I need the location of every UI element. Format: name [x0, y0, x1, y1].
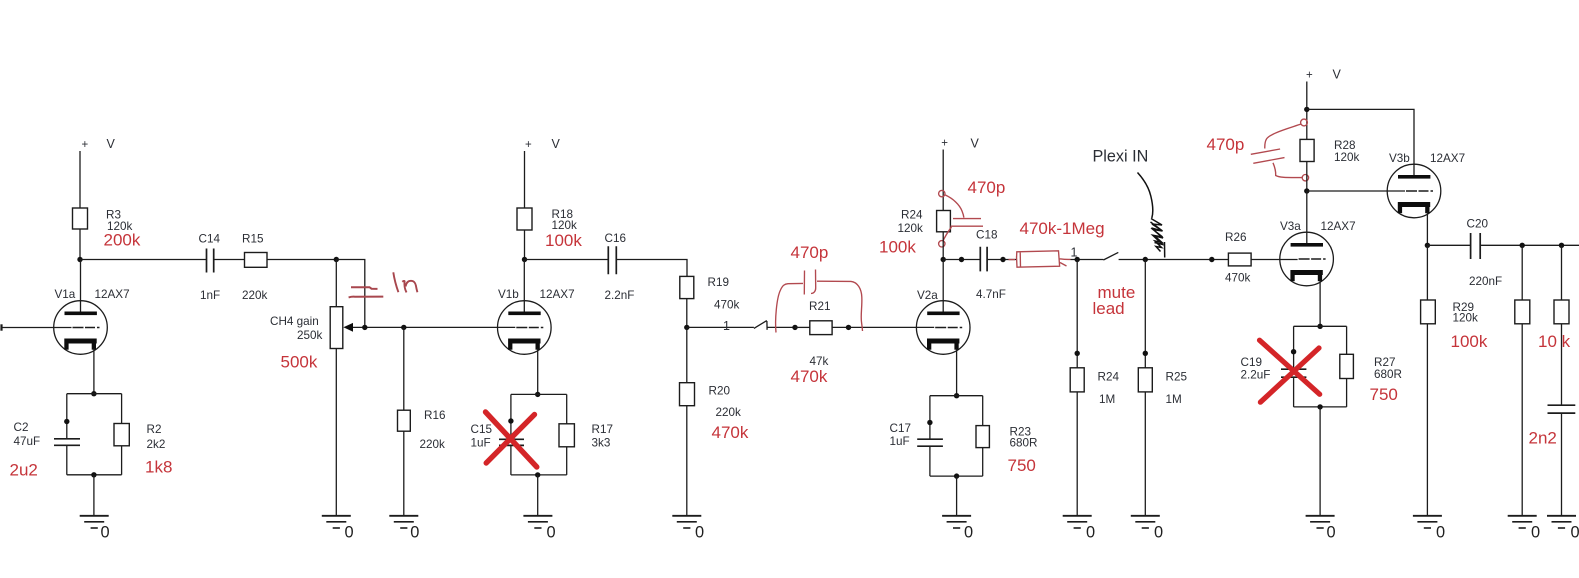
wire to ground (V1b cathode)	[537, 475, 539, 516]
resistor R2	[114, 424, 129, 446]
svg-text:200k: 200k	[104, 231, 141, 250]
svg-text:0: 0	[1531, 524, 1540, 542]
node right branch	[1559, 243, 1564, 248]
svg-text:220k: 220k	[716, 406, 742, 419]
wire R20 to ground	[686, 406, 688, 516]
wire right branch to R2	[121, 394, 123, 424]
svg-text:470k: 470k	[712, 423, 749, 442]
wire C20 to right edge	[1480, 244, 1579, 246]
wire R16 branch down	[403, 327, 405, 410]
wire V3b cathode down	[1426, 212, 1428, 245]
svg-text:2.2uF: 2.2uF	[1241, 368, 1271, 381]
wire V1a cathode down	[93, 349, 95, 394]
node cathode rail (V1b)	[535, 392, 540, 397]
wire left branch to C15	[510, 394, 512, 439]
wire R21 to node	[832, 326, 848, 328]
wire right branch down	[1561, 245, 1563, 300]
wire node to V3b grid	[1307, 190, 1405, 192]
wire left branch down to C2	[66, 394, 68, 439]
svg-text:47uF: 47uF	[14, 435, 41, 448]
potentiometer CH4 gain 250k	[330, 307, 343, 349]
svg-text:0: 0	[964, 524, 973, 542]
resistor R15	[245, 253, 268, 268]
wire C2 to bottom rail	[66, 445, 68, 475]
wire R15 to pot node	[267, 259, 336, 261]
svg-text:V: V	[1333, 68, 1342, 82]
resistor R18	[517, 208, 532, 230]
svg-text:1k8: 1k8	[145, 458, 172, 477]
wire R17 to bottom rail	[566, 447, 568, 475]
svg-text:0: 0	[1154, 524, 1163, 542]
annotation handwritten 470p cap over R21 (red)	[776, 270, 863, 333]
node on C2 branch	[64, 419, 69, 424]
capacitor C20	[1471, 233, 1481, 259]
wire bottom rail (V2a)	[930, 475, 983, 477]
resistor R17	[559, 424, 574, 447]
resistor R27	[1340, 354, 1354, 378]
svg-text:120k: 120k	[898, 222, 924, 235]
resistor R16	[398, 410, 411, 431]
wire V supply to R18	[524, 151, 526, 208]
svg-text:470k: 470k	[791, 367, 828, 386]
resistor R24 (plate)	[937, 211, 951, 232]
node cathode rail (V3a)	[1317, 324, 1322, 329]
input terminal tick	[0, 324, 2, 330]
wire bottom rail (V3a)	[1294, 406, 1347, 408]
pot wiper arrow	[343, 323, 353, 332]
node bottom rail	[91, 472, 96, 477]
wire output row to C20	[1427, 244, 1470, 246]
svg-text:C17: C17	[890, 422, 911, 435]
wire R3 to node	[79, 229, 81, 260]
resistor R28	[1300, 139, 1314, 161]
resistor R23	[976, 426, 989, 448]
node output (V3b cathode)	[1425, 243, 1430, 248]
svg-text:1M: 1M	[1099, 393, 1115, 406]
svg-text:220k: 220k	[420, 438, 446, 451]
svg-text:120k: 120k	[1453, 311, 1479, 324]
node mute left	[1075, 257, 1080, 262]
resistor R20	[680, 383, 695, 406]
wire R2 to bottom rail	[121, 446, 123, 475]
wire top rail C19/R27	[1294, 325, 1347, 327]
wire V supply to R3	[79, 151, 81, 208]
svg-text:C16: C16	[605, 232, 626, 245]
annotation handwritten arrow (black)	[1138, 173, 1165, 258]
svg-text:C19: C19	[1241, 356, 1262, 369]
wire bottom rail (V1b)	[511, 474, 567, 476]
wire R23 to bottom rail	[982, 448, 984, 477]
capacitor C19	[1281, 369, 1306, 377]
svg-text:3k3: 3k3	[592, 437, 611, 450]
svg-text:1: 1	[723, 319, 730, 333]
ground (V3a cathode)	[1306, 516, 1335, 528]
wire top rail C2/R2	[67, 393, 122, 395]
node aux (C18 left)	[959, 257, 964, 262]
wire C14 to R15	[214, 259, 245, 261]
ground (R29)	[1413, 516, 1442, 528]
svg-text:R25: R25	[1166, 370, 1188, 383]
wire to ground (V2a cathode)	[956, 476, 958, 516]
svg-text:120k: 120k	[1334, 151, 1360, 164]
triode V2a	[916, 301, 970, 355]
svg-text:R16: R16	[424, 409, 445, 422]
wire to ground (V3a cathode)	[1319, 407, 1321, 516]
wire to ground (V1a cathode)	[93, 475, 95, 516]
wire mid branch down	[1521, 245, 1523, 300]
wire C19 to bottom rail	[1293, 377, 1295, 407]
svg-text:220nF: 220nF	[1469, 275, 1502, 288]
triode V3b	[1387, 164, 1441, 218]
svg-text:+: +	[82, 139, 89, 151]
svg-text:1uF: 1uF	[890, 435, 910, 448]
resistor right (10k)	[1554, 300, 1569, 324]
node above pot	[334, 257, 339, 262]
svg-text:12AX7: 12AX7	[540, 288, 575, 301]
svg-text:V3b: V3b	[1389, 152, 1410, 165]
node on C15 branch	[508, 418, 513, 423]
svg-text:2k2: 2k2	[147, 438, 166, 451]
wire node to C16	[525, 259, 609, 261]
svg-text:680R: 680R	[1374, 368, 1402, 381]
resistor R24 (1M)	[1070, 368, 1084, 392]
wire R18 to node	[524, 230, 526, 260]
svg-text:470p: 470p	[968, 178, 1006, 197]
svg-text:V: V	[552, 137, 561, 151]
wire right branch to R17	[566, 394, 568, 423]
wire R24 to node	[942, 232, 944, 260]
wire node to C14	[80, 259, 207, 261]
svg-text:R26: R26	[1225, 231, 1246, 244]
svg-text:C2: C2	[14, 421, 29, 434]
svg-text:1nF: 1nF	[200, 289, 220, 302]
svg-text:+: +	[525, 139, 532, 151]
wire mute branch down (R24 1M)	[1076, 260, 1078, 368]
node right of R21	[846, 325, 851, 330]
node bottom rail (V1b)	[535, 472, 540, 477]
svg-text:R17: R17	[592, 423, 613, 436]
capacitor 2n2 (right)	[1548, 405, 1576, 413]
wire switch to R26	[1119, 259, 1229, 261]
wire node to V2a grid	[849, 326, 935, 328]
node bottom rail (V3a)	[1317, 404, 1322, 409]
node on C19 branch	[1291, 349, 1296, 354]
resistor R26	[1228, 253, 1251, 266]
wire node to switch	[687, 326, 754, 328]
ground (R25)	[1131, 516, 1160, 528]
svg-text:+: +	[1306, 70, 1313, 82]
resistor R29	[1421, 300, 1436, 324]
wire R19 to node	[686, 299, 688, 328]
node R16 tap	[401, 325, 406, 330]
node R25 tap	[1143, 257, 1148, 262]
ground (right branch)	[1547, 516, 1576, 528]
wire R25 to ground	[1144, 392, 1146, 516]
wire node to R21	[795, 326, 810, 328]
svg-text:Plexi IN: Plexi IN	[1093, 148, 1149, 166]
wire V3a cathode down	[1319, 280, 1321, 326]
wire R29 branch	[1426, 245, 1428, 300]
annotation handwritten 470p cap at R24 (red)	[939, 190, 983, 247]
capacitor C2	[54, 439, 80, 446]
wire node to wiper feed corner	[336, 260, 365, 328]
svg-text:0: 0	[695, 524, 704, 542]
svg-text:0: 0	[1436, 524, 1445, 542]
svg-text:V: V	[971, 137, 980, 151]
wire cap to ground (right)	[1561, 413, 1563, 516]
svg-text:R2: R2	[147, 423, 162, 436]
svg-text:470p: 470p	[1207, 135, 1245, 154]
svg-text:0: 0	[101, 524, 110, 542]
svg-text:0: 0	[1571, 524, 1579, 542]
wire switch to node	[768, 326, 796, 328]
wire node to V1b plate	[523, 260, 525, 314]
wire node to V2a plate	[942, 260, 944, 314]
svg-text:0: 0	[345, 524, 354, 542]
node cathode top rail	[91, 391, 96, 396]
wire C16 to R19 corner	[616, 260, 687, 277]
resistor R3	[73, 208, 88, 229]
svg-text:100k: 100k	[1451, 332, 1488, 351]
wire supply to V3b plate column	[1307, 109, 1414, 177]
svg-text:V2a: V2a	[917, 289, 938, 302]
svg-text:12AX7: 12AX7	[95, 288, 130, 301]
ground (R16)	[389, 516, 418, 528]
node on R25 branch	[1143, 351, 1148, 356]
svg-text:C20: C20	[1467, 217, 1489, 230]
svg-text:2.2nF: 2.2nF	[605, 289, 635, 302]
wire C15 to bottom rail	[510, 445, 512, 475]
triode V1a	[54, 301, 108, 355]
annotation handwritten resistor 470k-1Meg (red)	[1009, 251, 1071, 267]
svg-text:220k: 220k	[242, 289, 268, 302]
resistor mid (unlabelled)	[1515, 300, 1530, 324]
svg-text:1uF: 1uF	[471, 437, 491, 450]
svg-text:500k: 500k	[281, 353, 318, 372]
annotation handwritten cap symbol (red)	[349, 287, 384, 297]
wire pot bottom to ground	[335, 349, 337, 516]
svg-text:680R: 680R	[1010, 437, 1038, 450]
svg-text:V1b: V1b	[498, 288, 519, 301]
ground (V2a cathode)	[942, 516, 971, 528]
wire V1b cathode down	[537, 349, 539, 395]
wire R24 1M to ground	[1076, 392, 1078, 516]
node on R24 1M branch	[1075, 351, 1080, 356]
wire R29 to ground	[1426, 324, 1428, 516]
wire right resistor to cap	[1561, 324, 1563, 405]
capacitor C16	[608, 246, 616, 274]
capacitor C14	[207, 249, 214, 273]
wire top rail C17/R23	[930, 395, 983, 397]
svg-text:47k: 47k	[810, 355, 829, 368]
annotation handwritten 470p cap at R28 (red)	[1251, 119, 1309, 181]
svg-text:0: 0	[1086, 524, 1095, 542]
svg-text:0: 0	[1327, 524, 1336, 542]
resistor R21	[810, 321, 832, 335]
ground (R24 1M)	[1063, 516, 1092, 528]
wire bottom rail	[67, 474, 122, 476]
wire left branch to C17	[929, 396, 931, 440]
node below R28	[1304, 188, 1309, 193]
node on C17 branch	[927, 420, 932, 425]
wire mid resistor to ground	[1521, 324, 1523, 516]
node below R18	[522, 257, 527, 262]
wire R16 to ground	[403, 431, 405, 516]
svg-text:100k: 100k	[545, 231, 582, 250]
ground (V1a cathode)	[80, 516, 109, 528]
wire right branch to R27	[1346, 326, 1348, 354]
svg-text:250k: 250k	[297, 329, 323, 342]
annotation red X over C15	[486, 412, 537, 467]
node bottom rail (V2a)	[954, 473, 959, 478]
resistor R19	[680, 276, 694, 298]
ground (pot)	[322, 516, 351, 528]
node R19/R20	[684, 325, 689, 330]
ground (mid branch)	[1508, 516, 1537, 528]
svg-text:12AX7: 12AX7	[1430, 152, 1465, 165]
wire R27 to bottom rail	[1346, 379, 1348, 407]
svg-text:CH4 gain: CH4 gain	[270, 315, 319, 328]
node right of C18	[1000, 257, 1005, 262]
wire V supply down	[1306, 82, 1308, 140]
resistor R25	[1138, 368, 1152, 392]
svg-text:2n2: 2n2	[1529, 429, 1557, 448]
svg-text:0: 0	[410, 524, 419, 542]
capacitor C15	[499, 439, 524, 445]
svg-text:470k: 470k	[714, 298, 740, 311]
wire left branch to C19	[1293, 326, 1295, 369]
svg-text:470k: 470k	[1225, 271, 1251, 284]
wire node to V1a plate	[80, 260, 82, 314]
svg-text:100k: 100k	[879, 238, 916, 257]
wire C18 to red resistor	[987, 259, 1016, 261]
wire right branch to R23	[982, 396, 984, 426]
annotation red X over C19	[1260, 340, 1320, 402]
wire V2a cathode down	[956, 349, 958, 396]
svg-text:lead: lead	[1093, 299, 1125, 318]
svg-text:V3a: V3a	[1280, 220, 1301, 233]
svg-text:C14: C14	[199, 233, 221, 246]
svg-text:R15: R15	[242, 233, 264, 246]
capacitor C18	[980, 247, 987, 272]
wire red resistor to mute node	[1071, 259, 1104, 261]
wire wiper row to V1b grid	[353, 326, 515, 328]
node below R24	[941, 257, 946, 262]
svg-text:470p: 470p	[791, 243, 829, 262]
svg-text:0: 0	[547, 524, 556, 542]
svg-text:V1a: V1a	[55, 288, 76, 301]
node left of R21	[792, 325, 797, 330]
svg-text:R21: R21	[809, 300, 830, 313]
wire input to V1a grid	[2, 327, 72, 329]
svg-text:12AX7: 12AX7	[1321, 220, 1356, 233]
wire R28 to node	[1306, 162, 1308, 192]
svg-text:R24: R24	[901, 208, 923, 221]
svg-text:4.7nF: 4.7nF	[976, 288, 1006, 301]
svg-text:R20: R20	[709, 384, 731, 397]
wire pot top lead	[335, 260, 337, 307]
svg-text:R27: R27	[1374, 356, 1395, 369]
wire R26 to V3a grid	[1251, 259, 1298, 261]
ground (R20)	[672, 516, 701, 528]
svg-text:750: 750	[1008, 456, 1036, 475]
capacitor C17	[917, 439, 943, 446]
node mid branch	[1520, 243, 1525, 248]
svg-text:R24: R24	[1098, 370, 1120, 383]
ground (V1b cathode)	[523, 516, 552, 528]
svg-text:10 k: 10 k	[1538, 332, 1571, 351]
switch lever (R21 bypass)	[754, 321, 767, 330]
node aux right	[1209, 257, 1214, 262]
wire R25 branch down	[1144, 260, 1146, 368]
svg-text:V: V	[107, 137, 116, 151]
node wiper feed	[362, 325, 367, 330]
triode V3a	[1280, 232, 1334, 286]
wire top rail C15/R17	[511, 393, 567, 395]
svg-text:R19: R19	[708, 276, 729, 289]
svg-text:C18: C18	[976, 229, 997, 242]
node cathode rail (V2a)	[954, 393, 959, 398]
triode V1b	[498, 301, 552, 355]
node V supply split	[1304, 107, 1309, 112]
svg-text:2u2: 2u2	[10, 461, 38, 480]
node below R3	[77, 257, 82, 262]
switch lever (mute)	[1103, 252, 1118, 260]
wire R20 branch	[686, 327, 688, 382]
svg-text:+: +	[941, 138, 948, 150]
annotation handwritten In (red)	[393, 272, 417, 292]
svg-text:750: 750	[1370, 385, 1398, 404]
svg-text:120k: 120k	[552, 219, 578, 232]
svg-text:470k-1Meg: 470k-1Meg	[1020, 219, 1105, 238]
svg-text:1M: 1M	[1166, 393, 1182, 406]
wire node to V3a plate	[1306, 191, 1308, 245]
svg-text:C15: C15	[471, 423, 493, 436]
wire V supply to R24	[942, 150, 944, 211]
wire C17 to bottom rail	[929, 446, 931, 476]
wire node to C18	[943, 259, 980, 261]
